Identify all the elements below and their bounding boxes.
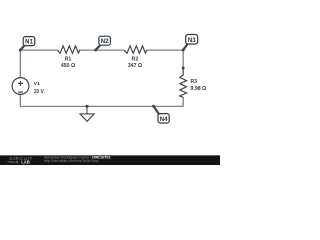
svg-text:LAB: LAB bbox=[21, 160, 30, 165]
svg-text:R2: R2 bbox=[132, 57, 139, 63]
svg-text:N4: N4 bbox=[160, 117, 168, 123]
svg-text:N2: N2 bbox=[101, 39, 109, 45]
node N4 pointer bbox=[154, 106, 159, 114]
svg-text:R1: R1 bbox=[65, 57, 72, 63]
svg-text:347 Ω: 347 Ω bbox=[128, 63, 142, 69]
node N2 bbox=[99, 36, 111, 45]
node N3 bbox=[186, 35, 198, 45]
svg-text:10 V: 10 V bbox=[34, 89, 45, 95]
ground junction dot bbox=[85, 105, 88, 108]
wire right vertical: R3 bottom to corner bbox=[182, 97, 184, 106]
svg-text:R3: R3 bbox=[191, 79, 198, 85]
wire left vertical: N1 to V1 top bbox=[19, 50, 21, 78]
resistor R1 bbox=[57, 46, 80, 53]
wire top: R2 to N3 corner bbox=[147, 49, 183, 51]
svg-text:N1: N1 bbox=[25, 40, 33, 46]
watermark bar bbox=[0, 155, 220, 165]
wire right vertical: N3 to R3 bbox=[182, 50, 184, 68]
wire bottom horizontal bbox=[20, 105, 183, 107]
svg-text:V1: V1 bbox=[34, 81, 40, 87]
node N1 pointer bbox=[20, 45, 24, 50]
resistor R3 (vertical) bbox=[180, 68, 187, 97]
svg-text:N3: N3 bbox=[188, 38, 196, 44]
node N4 bbox=[158, 114, 169, 123]
voltage source V1 bbox=[12, 78, 29, 95]
node N1 bbox=[23, 37, 35, 46]
wire left vertical: V1 bottom to corner bbox=[19, 94, 21, 106]
node N3 pointer bbox=[183, 44, 187, 50]
wire top: N1 corner to R1 bbox=[20, 49, 57, 51]
node N2 pointer bbox=[96, 45, 101, 50]
svg-text:9.98 Ω: 9.98 Ω bbox=[191, 86, 207, 92]
R3 terminal dot bbox=[182, 67, 185, 70]
wire top: R1 to R2 bbox=[79, 49, 124, 51]
resistor R2 bbox=[124, 46, 147, 53]
svg-text:450 Ω: 450 Ω bbox=[61, 63, 75, 69]
ground bbox=[80, 106, 94, 121]
CircuitLab logo zigzag bbox=[8, 161, 19, 164]
svg-text:http://circuitlab.com/cvs24r8e: http://circuitlab.com/cvs24r8e7wq4 bbox=[44, 159, 99, 163]
